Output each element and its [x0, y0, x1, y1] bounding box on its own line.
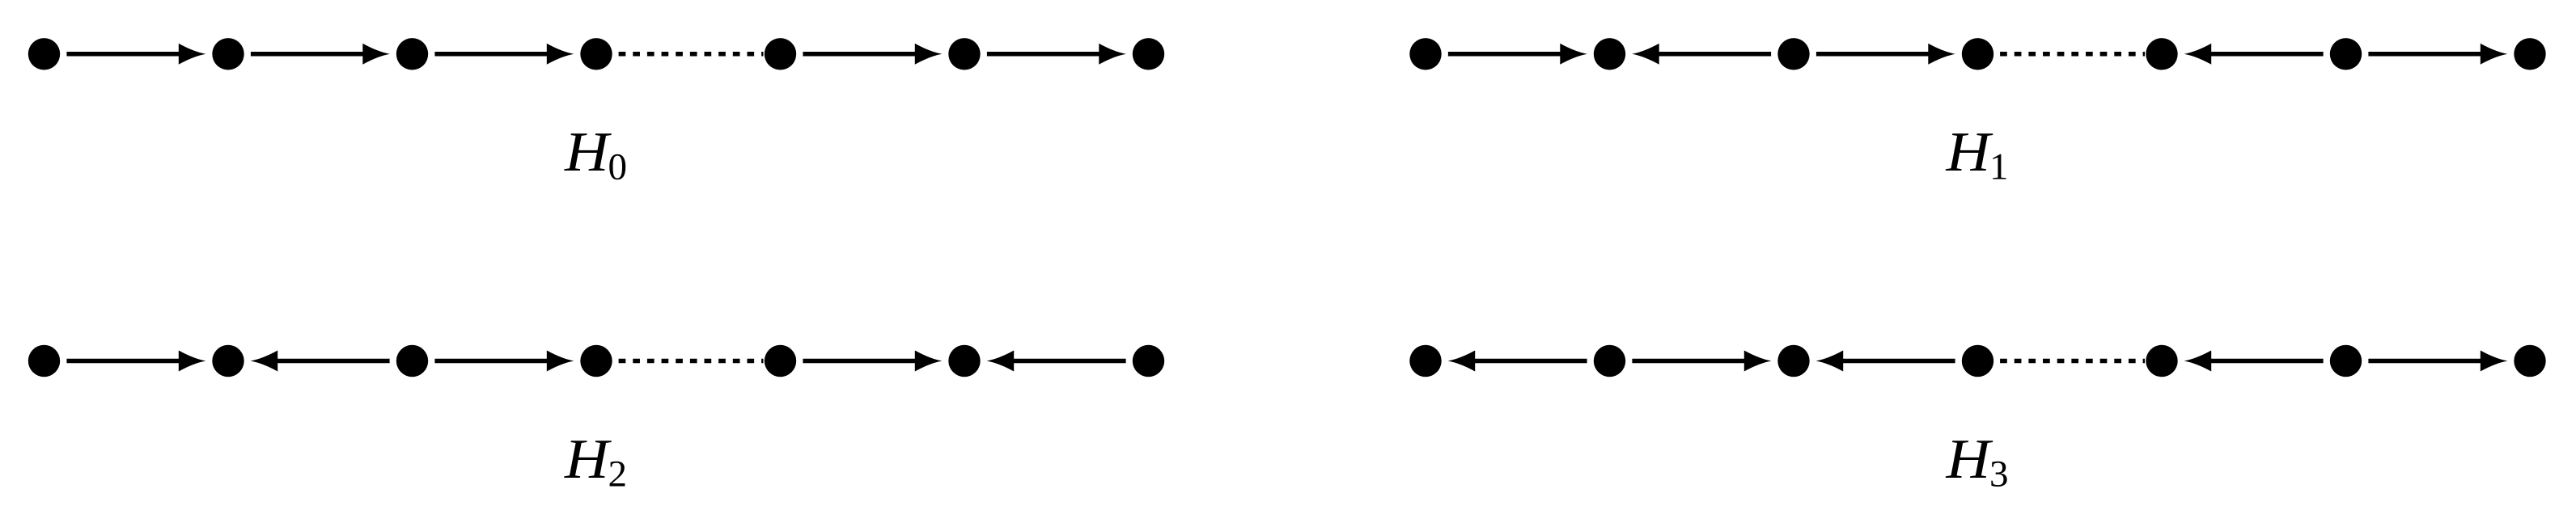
- node H1-1: [1409, 38, 1441, 70]
- node H2-2: [212, 345, 244, 377]
- wire: edge H2 1->2 (arrow right): [66, 351, 205, 372]
- node H3-6: [2330, 345, 2362, 377]
- node H2-6: [948, 345, 980, 377]
- node H2-4: [580, 345, 612, 377]
- node H2-5: [765, 345, 796, 377]
- svg-text:H: H: [564, 121, 612, 183]
- node H0-2: [212, 38, 244, 70]
- graph H1: [1409, 38, 2545, 188]
- node H3-4: [1962, 345, 1993, 377]
- wire: edge H1 3->4 (arrow right): [1816, 44, 1955, 65]
- wire: dotted edge H0 4..5: [619, 52, 764, 57]
- graph H0: [28, 38, 1164, 188]
- node H1-6: [2330, 38, 2362, 70]
- wire: edge H2 7->6 (arrow left): [987, 351, 1126, 372]
- node H2-7: [1133, 345, 1164, 377]
- wire: dotted edge H2 4..5: [619, 359, 764, 364]
- svg-text:1: 1: [1989, 146, 2009, 188]
- wire: edge H0 3->4 (arrow right): [434, 44, 574, 65]
- wire: edge H0 5->6 (arrow right): [803, 44, 942, 65]
- wire: edge H2 5->6 (arrow right): [803, 351, 942, 372]
- svg-text:H: H: [564, 428, 612, 491]
- node H2-3: [396, 345, 428, 377]
- node H3-3: [1777, 345, 1809, 377]
- node H0-3: [396, 38, 428, 70]
- wire: edge H0 2->3 (arrow right): [251, 44, 390, 65]
- node H1-4: [1962, 38, 1993, 70]
- wire: edge H3 4->3 (arrow left): [1816, 351, 1955, 372]
- wire: edge H2 3->2 (arrow left): [251, 351, 390, 372]
- node H3-1: [1409, 345, 1441, 377]
- wire: edge H3 6->7 (arrow right): [2368, 351, 2507, 372]
- wire: edge H1 3->2 (arrow left): [1632, 44, 1771, 65]
- wire: edge H1 6->7 (arrow right): [2368, 44, 2507, 65]
- wire: dotted edge H1 4..5: [2000, 52, 2145, 57]
- graph H3: [1409, 345, 2545, 495]
- wire: dotted edge H3 4..5: [2000, 359, 2145, 364]
- wire: edge H3 6->5 (arrow left): [2184, 351, 2324, 372]
- node H0-4: [580, 38, 612, 70]
- node H0-1: [28, 38, 60, 70]
- node H3-2: [1594, 345, 1625, 377]
- node H0-5: [765, 38, 796, 70]
- svg-text:H: H: [1945, 121, 1993, 183]
- label H_2: [564, 428, 627, 495]
- svg-text:H: H: [1945, 428, 1993, 491]
- wire: edge H1 1->2 (arrow right): [1448, 44, 1587, 65]
- node H1-3: [1777, 38, 1809, 70]
- wire: edge H0 1->2 (arrow right): [66, 44, 205, 65]
- svg-text:0: 0: [608, 146, 628, 188]
- wire: edge H3 2->1 (arrow left): [1448, 351, 1587, 372]
- label H_0: [564, 121, 627, 188]
- node H3-5: [2146, 345, 2177, 377]
- svg-text:3: 3: [1989, 453, 2009, 495]
- node H3-7: [2514, 345, 2545, 377]
- node H0-6: [948, 38, 980, 70]
- node H0-7: [1133, 38, 1164, 70]
- node H1-7: [2514, 38, 2545, 70]
- wire: edge H2 3->4 (arrow right): [434, 351, 574, 372]
- node H1-5: [2146, 38, 2177, 70]
- wire: edge H0 6->7 (arrow right): [987, 44, 1126, 65]
- node H2-1: [28, 345, 60, 377]
- wire: edge H1 6->5 (arrow left): [2184, 44, 2324, 65]
- label H_3: [1945, 428, 2008, 495]
- node H1-2: [1594, 38, 1625, 70]
- svg-text:2: 2: [608, 453, 628, 495]
- wire: edge H3 2->3 (arrow right): [1632, 351, 1771, 372]
- label H_1: [1945, 121, 2008, 188]
- graph H2: [28, 345, 1164, 495]
